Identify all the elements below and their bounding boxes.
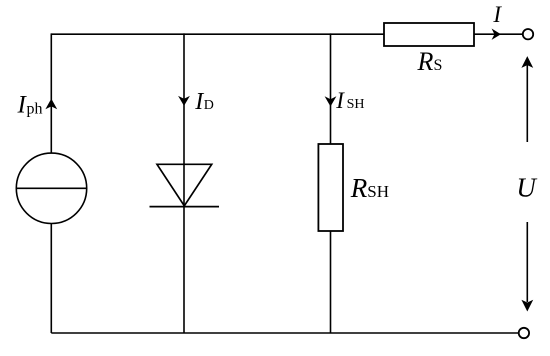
label RS [417, 47, 443, 76]
svg-text:I: I [194, 89, 204, 115]
svg-text:R: R [350, 173, 368, 203]
svg-text:U: U [516, 173, 537, 203]
terminal: negative output [519, 328, 529, 338]
wire: bottom bus [51, 332, 518, 334]
arrow: ID current direction (down) [178, 96, 190, 106]
arrow: Iph current direction (up) [45, 99, 57, 110]
label ID [194, 89, 214, 115]
svg-text:SH: SH [367, 182, 389, 201]
wire: top right from Rs to positive terminal [474, 33, 523, 35]
terminal: positive output [523, 29, 533, 39]
resistor RSH (vertical rectangle) [318, 144, 343, 231]
wire: shunt branch lower (RSH to bottom bus) [330, 231, 332, 333]
arrow: ISH current direction (down) [325, 96, 337, 106]
wire: left branch upper (top bus down to current source) [50, 33, 52, 153]
resistor RS (horizontal rectangle) [384, 23, 474, 46]
wire: left branch lower (current source down to bottom bus) [50, 224, 52, 334]
label RSH [350, 173, 389, 203]
current source Iph internal bar [16, 187, 86, 189]
svg-text:S: S [434, 57, 443, 74]
arrow: I output current direction (right) [492, 29, 501, 40]
diode D anode triangle [157, 164, 212, 206]
wire: top bus from top-left corner to Rs [51, 33, 384, 35]
wire: shunt branch upper (top bus to RSH) [330, 33, 332, 144]
svg-text:D: D [204, 98, 214, 113]
label Iph [17, 91, 43, 118]
svg-text:SH: SH [347, 97, 365, 112]
arrow: U voltage lower (pointing down) [521, 222, 533, 312]
wire: diode branch (top bus to bottom bus) [183, 33, 185, 333]
svg-text:I: I [492, 2, 502, 27]
svg-text:ph: ph [27, 100, 43, 117]
current source Iph (circle) [16, 153, 86, 223]
svg-text:R: R [417, 47, 434, 76]
svg-text:I: I [335, 88, 345, 113]
diode D cathode bar [150, 206, 220, 208]
label ISH [335, 88, 364, 113]
arrow: U voltage upper (pointing up) [521, 56, 533, 142]
